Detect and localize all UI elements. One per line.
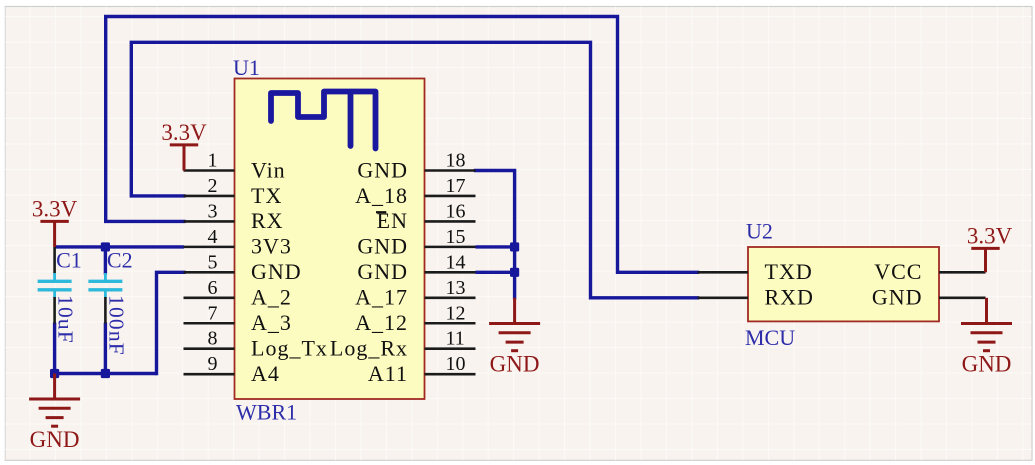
svg-text:A4: A4 xyxy=(251,361,280,386)
ground (U2 GND) xyxy=(961,298,1012,377)
wire bottom GND rail xyxy=(55,372,157,375)
svg-text:Vin: Vin xyxy=(251,157,286,182)
svg-text:14: 14 xyxy=(446,251,466,273)
svg-text:1: 1 xyxy=(208,150,218,172)
U2 pin RXD xyxy=(698,285,814,310)
svg-text:MCU: MCU xyxy=(745,325,795,350)
svg-text:A_2: A_2 xyxy=(251,285,292,310)
svg-text:U1: U1 xyxy=(233,55,260,80)
svg-text:VCC: VCC xyxy=(874,259,922,284)
svg-text:10uF: 10uF xyxy=(53,295,77,344)
U1 pin 12 (A_12) xyxy=(355,302,475,335)
U1 pin 11 (Log_Rx) xyxy=(330,328,476,361)
IC U2 MCU body xyxy=(748,247,939,321)
U1 pin 18 (GND) xyxy=(357,150,475,183)
svg-text:GND: GND xyxy=(251,259,302,284)
svg-text:A_17: A_17 xyxy=(355,285,408,310)
U1 pin 2 (TX) xyxy=(184,175,283,208)
U1 pin 4 (3V3) xyxy=(184,226,292,259)
svg-text:3V3: 3V3 xyxy=(251,234,292,259)
svg-text:GND: GND xyxy=(30,427,80,452)
svg-text:GND: GND xyxy=(357,234,408,259)
U1 pin 13 (A_17) xyxy=(355,277,475,310)
power 3.3V (U1 pin 1) xyxy=(161,120,207,171)
junction pin15/GND xyxy=(510,242,519,251)
svg-text:15: 15 xyxy=(446,226,466,248)
U1 pin 9 (A4) xyxy=(184,353,280,386)
svg-text:Log_Tx: Log_Tx xyxy=(251,336,328,361)
junction pin14/GND xyxy=(510,268,519,277)
junction C1/bottom rail xyxy=(50,369,59,378)
svg-text:10: 10 xyxy=(446,353,466,375)
wire C2 bottom lead to rail xyxy=(104,323,107,374)
junction C2/bottom rail xyxy=(101,369,110,378)
svg-text:TX: TX xyxy=(251,183,282,208)
svg-text:16: 16 xyxy=(446,200,466,222)
svg-text:GND: GND xyxy=(357,157,408,182)
svg-text:4: 4 xyxy=(208,226,218,248)
U2 pin GND xyxy=(872,285,986,310)
svg-text:A_18: A_18 xyxy=(355,183,408,208)
svg-text:3.3V: 3.3V xyxy=(32,196,78,221)
svg-text:8: 8 xyxy=(208,328,218,350)
svg-text:3.3V: 3.3V xyxy=(161,120,207,145)
U1 pin 3 (RX) xyxy=(184,200,284,233)
svg-text:2: 2 xyxy=(208,175,218,197)
svg-text:3: 3 xyxy=(208,200,218,222)
svg-text:7: 7 xyxy=(208,302,218,324)
wire U1 pin 5 GND to bottom rail xyxy=(157,272,185,373)
U1 pin 10 (A11) xyxy=(368,353,476,386)
wire U1 pin 15 to GND net xyxy=(476,245,515,248)
svg-text:C2: C2 xyxy=(107,247,133,272)
U1 pin 15 (GND) xyxy=(357,226,475,259)
svg-text:11: 11 xyxy=(446,328,465,350)
svg-text:13: 13 xyxy=(446,277,466,299)
wire C1 bottom lead to rail xyxy=(53,323,56,374)
svg-text:GND: GND xyxy=(357,259,408,284)
svg-text:6: 6 xyxy=(208,277,218,299)
svg-text:A_3: A_3 xyxy=(251,310,292,335)
wire net U1.TX to U2.RXD (inner loop) xyxy=(131,42,697,297)
svg-text:GND: GND xyxy=(872,285,923,310)
ground (U1 GND pins) xyxy=(489,298,540,377)
wire 3.3V rail to U1 pin 4 xyxy=(55,245,184,248)
capacitor C1 10uF xyxy=(38,247,82,344)
svg-text:5: 5 xyxy=(208,251,218,273)
U1 pin 8 (Log_Tx) xyxy=(184,328,328,361)
svg-text:100nF: 100nF xyxy=(104,295,128,356)
svg-text:RX: RX xyxy=(251,208,284,233)
svg-text:18: 18 xyxy=(446,150,466,172)
U1 pin 17 (A_18) xyxy=(355,175,475,208)
svg-text:17: 17 xyxy=(446,175,466,197)
U1 pin 6 (A_2) xyxy=(184,277,292,310)
U1 pin 1 (Vin) xyxy=(184,150,286,183)
antenna glyph inside U1 xyxy=(271,92,376,149)
svg-text:TXD: TXD xyxy=(765,259,813,284)
svg-text:A11: A11 xyxy=(368,361,408,386)
svg-text:Log_Rx: Log_Rx xyxy=(330,336,408,361)
svg-text:C1: C1 xyxy=(56,247,82,272)
svg-text:12: 12 xyxy=(446,302,466,324)
svg-text:GND: GND xyxy=(490,352,540,377)
svg-text:WBR1: WBR1 xyxy=(236,400,297,425)
wire net U1.RX to U2.TXD (outer loop) xyxy=(106,17,698,273)
U1 pin 16 (EN) xyxy=(376,200,476,233)
U2 pin TXD xyxy=(698,259,813,284)
svg-text:9: 9 xyxy=(208,353,218,375)
power 3.3V (U2 VCC) xyxy=(967,223,1013,272)
wire C2 top lead xyxy=(104,247,107,275)
power 3.3V (left, caps rail) xyxy=(32,196,78,247)
svg-text:GND: GND xyxy=(962,352,1012,377)
ground (below C1/C2) xyxy=(29,374,80,453)
svg-text:A_12: A_12 xyxy=(355,310,408,335)
U1 pin 5 (GND) xyxy=(184,251,302,284)
wire U1 pin 18 to GND xyxy=(476,171,515,298)
svg-text:3.3V: 3.3V xyxy=(967,223,1013,248)
U1 pin 14 (GND) xyxy=(357,251,475,284)
junction C2/3.3V rail xyxy=(101,242,110,251)
U2 pin VCC xyxy=(874,259,985,284)
U1 pin 7 (A_3) xyxy=(184,302,292,335)
svg-text:U2: U2 xyxy=(746,219,773,244)
svg-text:RXD: RXD xyxy=(765,285,814,310)
IC U1 WBR1 body xyxy=(235,79,425,400)
wire U1 pin 14 to GND net xyxy=(476,271,515,274)
capacitor C2 100nF xyxy=(88,247,132,356)
